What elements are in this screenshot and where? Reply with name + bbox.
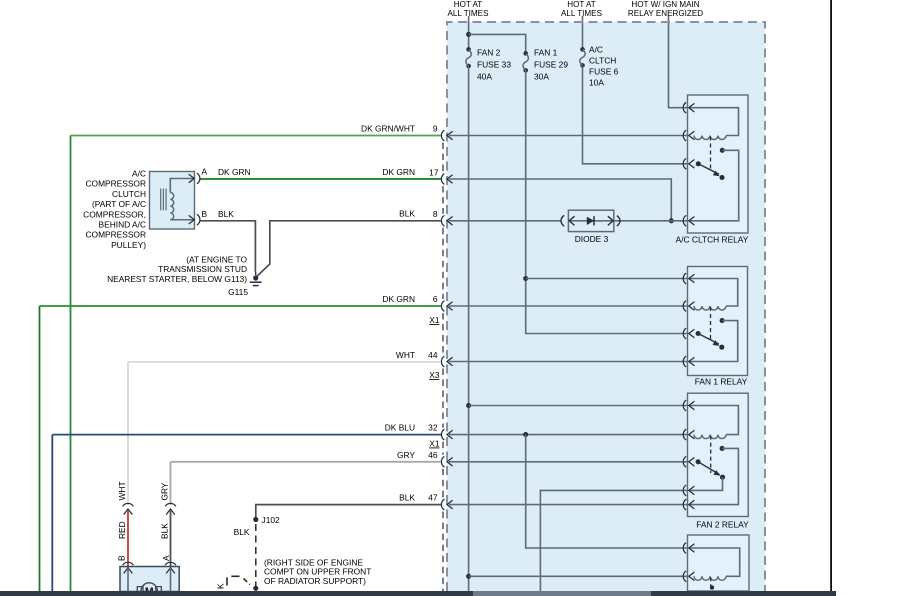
svg-text:HOT AT: HOT AT: [454, 0, 483, 9]
svg-text:FAN 1 RELAY: FAN 1 RELAY: [695, 377, 748, 387]
svg-text:(AT ENGINE TO: (AT ENGINE TO: [186, 254, 247, 264]
svg-text:9: 9: [433, 124, 438, 134]
motor pin B connector (top entry): [123, 562, 134, 565]
svg-text:DK GRN: DK GRN: [382, 294, 415, 304]
wire WHT vertical down to connector: [127, 362, 129, 505]
wire DK GRN/WHT vertical down: [70, 136, 72, 592]
junction dot branch to relay 3: [523, 432, 528, 437]
wire DK BLU circuit 32: [52, 434, 441, 436]
FAN1 relay pin 2 connector (coil): [683, 301, 686, 312]
FAN2 relay arm contact wire to pin 4: [689, 477, 723, 490]
fuse FAN 2 FUSE 33 40A: [466, 47, 471, 52]
connector terminal circuit 32: [441, 429, 444, 440]
junction dot at diode output node: [669, 218, 674, 223]
wire FAN 1 FUSE output vertical to FAN 1 RELAY pin 3: [526, 70, 688, 333]
FAN1 relay pin 1 internal wire to coil: [689, 279, 738, 307]
svg-text:DK GRN: DK GRN: [382, 167, 415, 177]
fuse block box dashed border: [447, 22, 765, 591]
clutch internal wire pin A to coil: [170, 179, 193, 193]
svg-text:A/C CLTCH RELAY: A/C CLTCH RELAY: [676, 235, 749, 245]
wire GRY vertical down to connector: [170, 462, 172, 505]
svg-text:GRY: GRY: [397, 450, 415, 460]
splice J102: [253, 517, 258, 522]
switch K dashed fragment: [226, 577, 228, 585]
A/C relay switch arm: [696, 161, 701, 166]
FAN1 relay pin 3 connector: [683, 328, 686, 339]
wire FAN 2 RELAY pin 4 output going down off page: [540, 490, 687, 591]
A/C relay pin 1 connector: [683, 102, 686, 113]
svg-text:WHT: WHT: [396, 350, 415, 360]
fuse block / underhood electrical center box (shaded): [447, 22, 765, 591]
junction dot feed of FAN 1 FUSE: [466, 32, 471, 37]
A/C relay coil: [694, 136, 726, 140]
svg-text:OF RADIATOR SUPPORT): OF RADIATOR SUPPORT): [264, 576, 366, 586]
svg-text:DK GRN/WHT: DK GRN/WHT: [361, 124, 415, 134]
component A/C compressor clutch box: [150, 172, 195, 230]
ground G115 symbol: [253, 275, 258, 280]
clutch pin A connector: [197, 173, 200, 184]
svg-text:B: B: [202, 209, 208, 219]
motor symbol dome: [141, 583, 157, 591]
svg-text:32: 32: [428, 423, 438, 433]
svg-text:COMPRESSOR: COMPRESSOR: [86, 179, 147, 189]
junction dot to FAN 2 RELAY pin 1: [466, 403, 471, 408]
wire circuit 8 BLK inside box to DIODE 3: [449, 220, 562, 222]
svg-text:HOT W/ IGN MAIN: HOT W/ IGN MAIN: [631, 0, 699, 9]
wire circuit 32 DK BLU inside box to FAN 2 RELAY coil: [449, 434, 688, 436]
A/C relay NO contact dot: [720, 148, 725, 153]
diode DIODE 3 box: [568, 210, 613, 231]
inline connector on cooling fan feed (WHT/RED): [123, 503, 134, 506]
FAN2 relay pin 4 connector: [683, 485, 686, 496]
svg-text:BEHIND A/C: BEHIND A/C: [99, 220, 146, 230]
wire BLK circuit 47: [256, 505, 441, 519]
svg-text:DIODE 3: DIODE 3: [575, 234, 609, 244]
diode D3 symbol: [587, 217, 594, 225]
connector terminal circuit 47: [441, 499, 444, 510]
svg-text:17: 17: [429, 168, 439, 178]
horizontal scrollbar track: [0, 591, 836, 596]
FAN2 relay pin 3 connector: [683, 456, 686, 467]
svg-text:47: 47: [428, 493, 438, 503]
FAN2 relay NO contact dot: [720, 446, 725, 451]
wire DK BLU vertical down: [51, 435, 53, 591]
svg-text:COMPRESSOR: COMPRESSOR: [86, 230, 147, 240]
clutch internal wire coil to pin B: [170, 219, 193, 221]
A/C relay NO contact wire to pin 4: [689, 150, 739, 221]
connector terminal circuit 17: [441, 174, 444, 185]
fuse A/C CLTCH FUSE 6 10A: [580, 47, 585, 52]
svg-text:K: K: [216, 583, 226, 589]
wire DK GRN/WHT circuit 9: [71, 135, 442, 137]
wire through DIODE 3 to node: [614, 220, 688, 222]
wire circuit 47 BLK inside box to FAN 2 RELAY pin 5: [449, 504, 688, 506]
junction dot to relay 3 coil: [466, 574, 471, 579]
A/C relay pin 2 connector (coil): [683, 130, 686, 141]
svg-text:10A: 10A: [589, 78, 604, 88]
diode D3 right connector paren: [617, 216, 620, 226]
diode D3 left connector paren: [561, 215, 564, 226]
svg-text:(PART OF A/C: (PART OF A/C: [92, 199, 146, 209]
clutch pin B connector: [197, 214, 200, 225]
svg-text:FUSE 6: FUSE 6: [589, 67, 619, 77]
svg-text:HOT AT: HOT AT: [567, 0, 596, 9]
wire to FAN 1 RELAY pin 1: [526, 278, 688, 280]
wire WHT circuit 44: [128, 361, 441, 363]
FAN2 relay pin 1 internal wire to coil: [689, 406, 738, 435]
svg-text:DK GRN: DK GRN: [218, 167, 251, 177]
relay FAN 1 RELAY box: [688, 267, 748, 376]
connector terminal circuit 46: [441, 456, 444, 467]
svg-text:X1: X1: [429, 439, 440, 449]
svg-text:B: B: [116, 555, 126, 561]
wire BLK circuit 8: [257, 221, 441, 277]
fuse FAN 1 FUSE 29 30A: [523, 51, 528, 56]
svg-text:40A: 40A: [477, 72, 492, 82]
A/C relay armature dashed link: [710, 137, 712, 171]
FAN2 relay pin 5 connector: [683, 499, 686, 510]
FAN1 relay pin 4 connector: [683, 356, 686, 367]
wire to relay 3 coil pin: [469, 575, 688, 577]
FAN1 relay NO contact dot: [720, 318, 725, 323]
relay3 pin 1 internal wire to coil: [689, 548, 740, 576]
A/C relay pin 4 connector: [683, 215, 686, 226]
relay3 armature dashed link stub: [710, 577, 712, 586]
clutch coil core lines: [160, 189, 162, 211]
wire from HOT AT ALL TIMES to FAN 2 FUSE: [468, 16, 470, 49]
wire branch down to relay 3 pin 1: [526, 435, 688, 548]
relay3 coil pin connector: [683, 571, 686, 582]
connector face dashed line at fuse block: [442, 128, 444, 130]
wire from HOT AT ALL TIMES to A/C CLTCH FUSE: [582, 16, 584, 49]
wire to FAN 2 RELAY pin 1: [469, 405, 688, 407]
connector terminal circuit 44: [441, 356, 444, 367]
FAN2 relay switch arm: [696, 459, 701, 464]
wire circuit 6 DK GRN inside box to FAN 1 RELAY coil: [449, 305, 688, 307]
svg-text:ALL TIMES: ALL TIMES: [448, 9, 490, 18]
svg-text:RED: RED: [117, 521, 127, 539]
wire from HOT W/ IGN MAIN RELAY ENERGIZED to A/C CLTCH RELAY pin 1: [669, 16, 688, 108]
wire BLK to fan motor pin A: [170, 511, 172, 568]
diode D3 left arrowhead: [569, 216, 574, 225]
wire BLK dashed continuation from J102: [255, 524, 257, 586]
svg-text:J102: J102: [262, 515, 281, 525]
diode D3 wire inside box: [568, 220, 613, 222]
FAN1 relay coil: [694, 306, 726, 310]
wire circuit 9 DK GRN/WHT inside box to A/C CLTCH RELAY coil: [449, 135, 688, 137]
svg-text:BLK: BLK: [399, 493, 415, 503]
svg-text:A/C: A/C: [589, 45, 603, 55]
wire DK GRN circuit 6: [40, 305, 442, 307]
svg-text:GRY: GRY: [160, 482, 170, 500]
svg-text:44: 44: [428, 350, 438, 360]
svg-text:TRANSMISSION STUD: TRANSMISSION STUD: [158, 264, 247, 274]
FAN2 relay pin 2 connector (coil): [683, 429, 686, 440]
svg-text:CLUTCH: CLUTCH: [112, 189, 146, 199]
motor pin A connector (top entry): [165, 562, 176, 565]
FAN1 relay pin 1 connector: [683, 273, 686, 284]
A/C relay pin 3 connector: [683, 158, 686, 169]
connector terminal circuit 6: [441, 301, 444, 312]
wire branch to FAN 1 FUSE: [469, 34, 526, 53]
window pane divider vertical line: [830, 0, 832, 591]
svg-text:A: A: [161, 555, 171, 561]
svg-text:BLK: BLK: [399, 209, 415, 219]
A/C relay pin 1 internal wire to coil: [689, 108, 739, 136]
relay A/C CLTCH RELAY box: [688, 95, 749, 233]
FAN2 relay pin 1 connector: [683, 400, 686, 411]
svg-text:BLK: BLK: [160, 523, 170, 539]
relay 3 box (cut off at bottom): [688, 535, 750, 591]
connector terminal circuit 8: [441, 215, 444, 226]
svg-text:A/C: A/C: [132, 169, 146, 179]
svg-text:NEAREST STARTER, BELOW G113): NEAREST STARTER, BELOW G113): [107, 274, 247, 284]
svg-text:6: 6: [433, 294, 438, 304]
svg-text:X3: X3: [429, 370, 440, 380]
svg-text:DK BLU: DK BLU: [385, 423, 415, 433]
svg-text:FUSE 29: FUSE 29: [534, 60, 568, 70]
svg-text:X1: X1: [429, 315, 440, 325]
svg-text:FAN 1: FAN 1: [534, 48, 558, 58]
diode D3 right arrowhead: [608, 216, 613, 225]
svg-text:WHT: WHT: [117, 481, 127, 500]
FAN1 relay NO contact wire to pin 4: [689, 321, 738, 362]
svg-text:FUSE 33: FUSE 33: [477, 60, 511, 70]
svg-text:8: 8: [433, 209, 438, 219]
motor pin wires inside box: [127, 568, 129, 591]
junction dot to FAN 1 RELAY pin 1: [523, 276, 528, 281]
svg-text:ALL TIMES: ALL TIMES: [561, 9, 603, 18]
wire circuit 17 DK GRN inside box: [449, 179, 671, 221]
wire RED to fan motor pin B: [127, 511, 129, 568]
wire circuit 44 WHT inside box to FAN 1 RELAY pin 4: [449, 361, 688, 363]
FAN1 relay armature dashed link: [710, 307, 712, 340]
FAN2 relay armature dashed link: [710, 436, 712, 473]
wire GRY circuit 46: [171, 461, 442, 463]
clutch coil humps: [170, 193, 173, 220]
relay3 pin 1 connector: [683, 543, 686, 554]
FAN2 relay NO contact wire to pin 5: [689, 448, 738, 504]
wire DK GRN circuit 17 from A/C compressor clutch: [200, 178, 442, 180]
svg-text:COMPRESSOR,: COMPRESSOR,: [83, 209, 146, 219]
svg-text:CLTCH: CLTCH: [589, 56, 616, 66]
wire DK GRN circuit 6 vertical down: [39, 306, 41, 591]
svg-text:BLK: BLK: [234, 527, 250, 537]
relay3 coil: [694, 576, 726, 580]
horizontal scrollbar thumb: [473, 591, 651, 596]
FAN1 relay switch arm: [696, 331, 701, 336]
svg-text:FAN 2: FAN 2: [477, 48, 501, 58]
motor symbol brackets: [137, 587, 143, 591]
svg-text:30A: 30A: [534, 72, 549, 82]
svg-text:BLK: BLK: [218, 209, 234, 219]
svg-text:FAN 2 RELAY: FAN 2 RELAY: [696, 520, 749, 530]
FAN2 relay coil: [694, 435, 726, 439]
svg-text:G115: G115: [228, 287, 248, 297]
svg-text:A: A: [202, 167, 208, 177]
svg-text:46: 46: [428, 450, 438, 460]
svg-text:RELAY ENERGIZED: RELAY ENERGIZED: [628, 9, 703, 18]
connector terminal circuit 9: [441, 130, 444, 141]
wire A/C CLTCH FUSE output to A/C CLTCH RELAY pin 3: [583, 65, 688, 163]
wire circuit 46 GRY inside box to FAN 2 RELAY pin 3: [449, 461, 688, 463]
inline connector on fan motor ground (GRY/BLK): [165, 503, 176, 506]
wire BLK from clutch pin B to ground: [200, 221, 256, 272]
svg-text:PULLEY): PULLEY): [111, 240, 146, 250]
wire FAN 2 FUSE output vertical: [468, 66, 470, 591]
component cooling fan motor box: [120, 567, 179, 592]
relay FAN 2 RELAY box: [688, 393, 749, 516]
